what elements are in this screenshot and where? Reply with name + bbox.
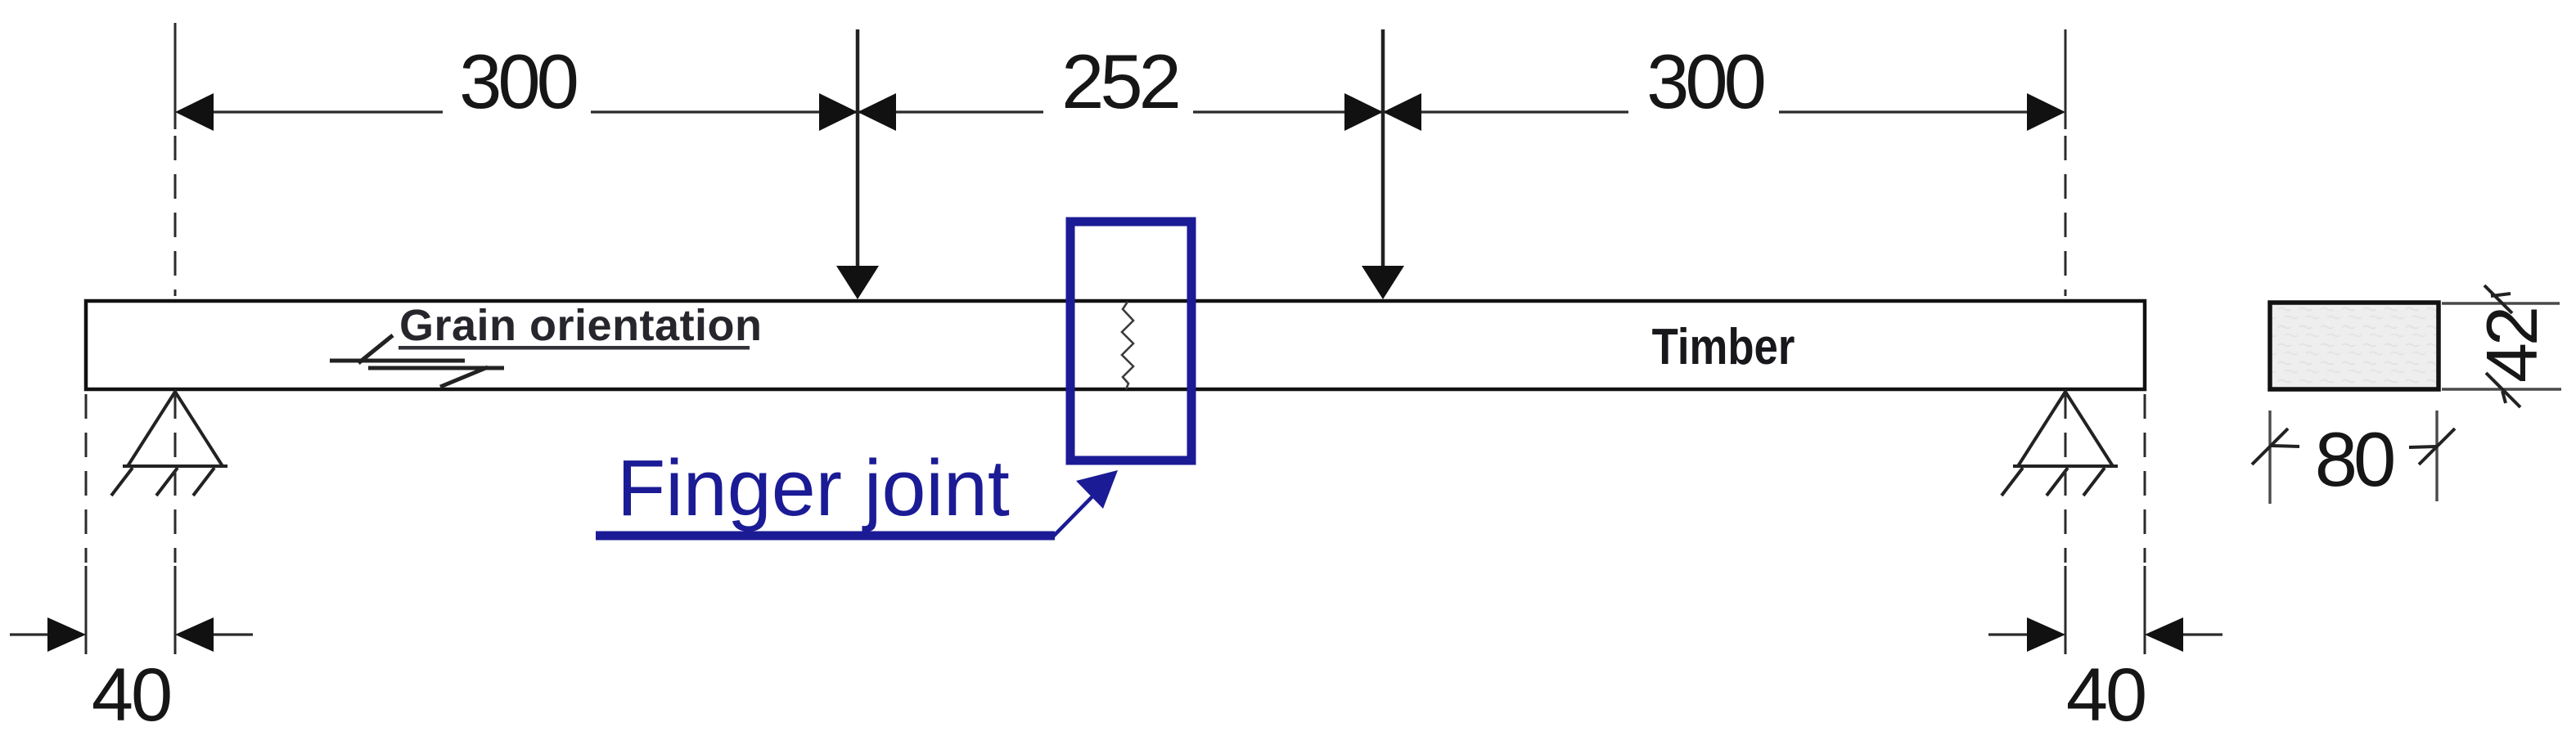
grain symbol upper barb	[358, 335, 393, 363]
bottom extension line at left support	[174, 566, 177, 654]
grain symbol lower barb	[440, 367, 488, 387]
left support extension line above beam (solid then dashed)	[174, 23, 177, 129]
cross-section rectangle 80x42	[2270, 303, 2439, 389]
right support base line	[2013, 464, 2118, 468]
svg-text:Finger joint: Finger joint	[617, 443, 1010, 532]
42 dim: bottom extension line	[2442, 388, 2561, 390]
dimension line 300 left segments	[178, 110, 856, 113]
40 dim left: arrow pointing right at beam end	[47, 617, 86, 652]
arrowhead left end of 300 dim (tip at support line)	[175, 93, 214, 131]
right support hatch 1	[2002, 468, 2023, 496]
bottom extension line at beam left end	[85, 566, 88, 654]
finger joint leader diagonal	[1053, 492, 1097, 536]
40 dim left: outer tail line	[10, 633, 49, 635]
arrowhead right end of 252 dim	[1344, 93, 1383, 131]
80 dim: left tick	[2252, 429, 2288, 464]
right support triangle	[2018, 392, 2113, 466]
grain symbol lower half-arrow shaft (points right)	[368, 366, 504, 370]
42 dim: top tick barb	[2491, 294, 2511, 296]
right support hatch 3	[2083, 468, 2105, 496]
dashed line below beam at right support	[2065, 394, 2067, 563]
right support hatch 2	[2047, 468, 2068, 496]
svg-text:252: 252	[1061, 38, 1178, 124]
80 dim: right tick	[2419, 429, 2455, 464]
42 dim: top extension line	[2442, 302, 2560, 304]
80 dim: right tick barb	[2409, 447, 2436, 447]
svg-text:Timber: Timber	[1652, 319, 1795, 375]
left support hatch 1	[111, 468, 133, 496]
load line 1 shaft	[856, 29, 860, 270]
dimension line 252 segments	[858, 110, 1383, 113]
dashed line below beam at left support	[174, 394, 177, 563]
finger joint leader line horizontal	[596, 532, 1055, 541]
arrowhead right end of right 300 dim (tip at right support line)	[2027, 93, 2065, 131]
svg-text:40: 40	[2066, 653, 2145, 736]
finger joint zigzag crack	[1122, 302, 1133, 389]
finger joint leader arrowhead	[1076, 470, 1118, 509]
42 dim: bottom tick	[2486, 373, 2520, 407]
dashed line below beam at beam left end	[85, 394, 88, 563]
42 dim: bottom tick barb	[2502, 391, 2506, 403]
svg-text:Grain orientation: Grain orientation	[399, 301, 763, 350]
40 dim right: inner tail line	[1988, 633, 2028, 635]
arrowhead left end of right 300 dim	[1383, 93, 1421, 131]
left support triangle	[128, 392, 223, 466]
timber beam rectangle	[86, 301, 2145, 389]
dimension line 300 right segments	[1383, 110, 2062, 113]
svg-text:40: 40	[92, 653, 170, 736]
arrowhead left end of 252 dim	[858, 93, 896, 131]
arrowhead right end of 300 dim (tip at load line 1)	[819, 93, 858, 131]
left support hatch 2	[156, 468, 178, 496]
load arrow 2 head (tip on beam top)	[1362, 266, 1404, 299]
dashed line below beam at beam right end	[2144, 394, 2146, 563]
svg-text:42: 42	[2471, 309, 2552, 383]
42 dim: top tick	[2484, 285, 2512, 313]
40 dim right: arrow pointing right at support	[2027, 617, 2065, 652]
left support hatch 3	[193, 468, 214, 496]
svg-text:80: 80	[2315, 416, 2394, 502]
finger joint blue box	[1070, 222, 1191, 460]
underline of Grain orientation	[399, 346, 750, 350]
right support extension line above beam (solid then dashed)	[2065, 29, 2067, 129]
40 dim left: inner tail line	[214, 633, 253, 635]
bottom extension line at beam right end	[2144, 566, 2146, 654]
80 dim: left tick barb	[2272, 446, 2299, 447]
load arrow 1 head (tip on beam top)	[836, 266, 879, 299]
svg-text:300: 300	[1646, 38, 1764, 124]
svg-text:300: 300	[459, 38, 577, 124]
left support base line	[123, 464, 227, 468]
bottom extension line at right support	[2065, 566, 2067, 654]
40 dim right: outer tail line	[2183, 633, 2222, 635]
80 dim: right extension line	[2435, 411, 2438, 501]
80 dim: left extension line	[2268, 411, 2271, 504]
40 dim right: arrow pointing left at beam end	[2145, 617, 2183, 652]
40 dim left: arrow pointing left at support	[175, 617, 214, 652]
load line 2 shaft	[1381, 29, 1385, 270]
grain symbol upper half-arrow shaft (points left)	[330, 359, 465, 363]
